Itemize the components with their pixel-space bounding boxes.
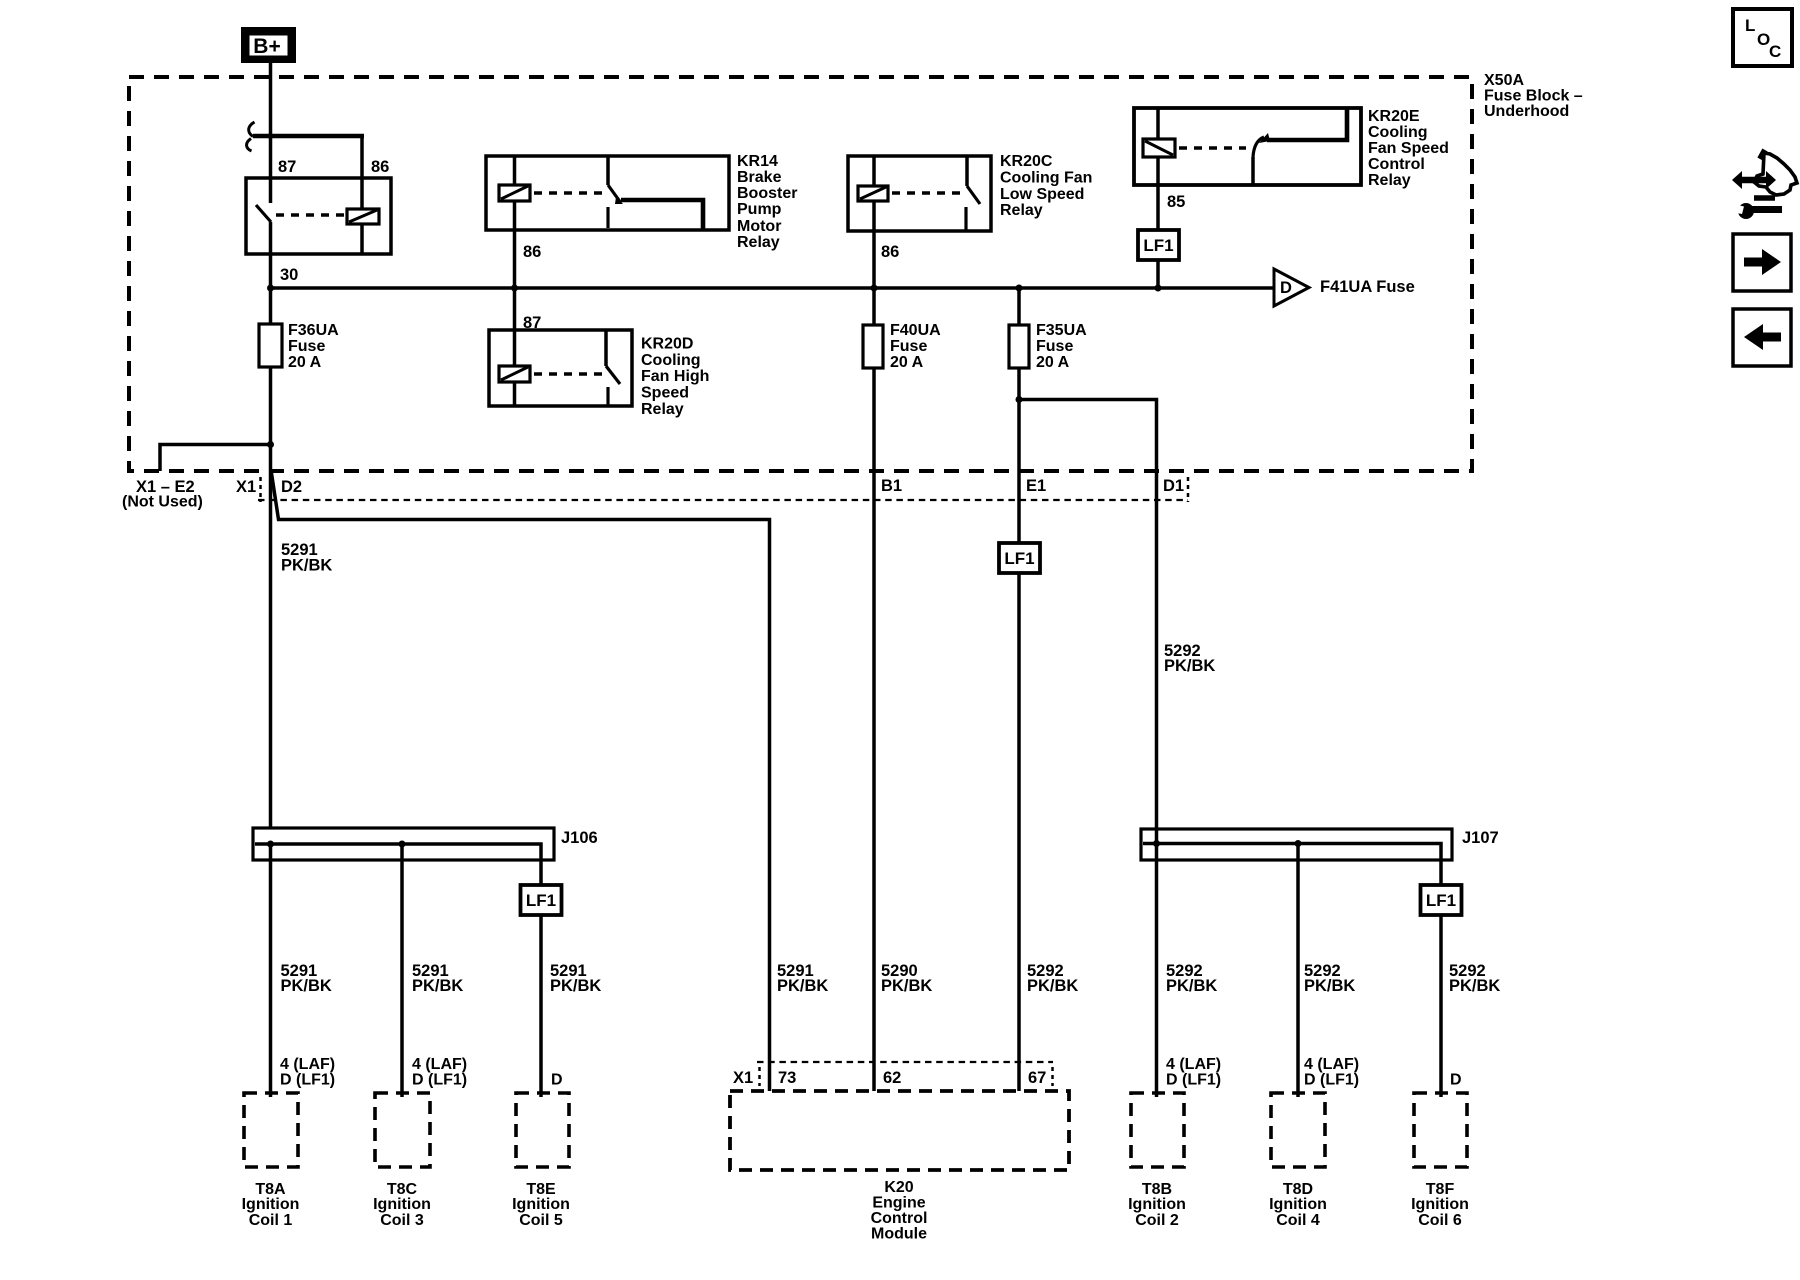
svg-text:62: 62 [883, 1069, 901, 1087]
svg-text:F35UA: F35UA [1036, 322, 1087, 339]
svg-text:20 A: 20 A [890, 354, 924, 371]
splice LF1 below J106 [521, 885, 562, 915]
svg-text:D2: D2 [281, 478, 302, 496]
svg-text:PK/BK: PK/BK [777, 977, 828, 995]
wire J106 to T8E via LF1 [539, 885, 543, 1097]
svg-text:73: 73 [778, 1069, 796, 1087]
svg-text:E1: E1 [1026, 477, 1046, 495]
hook symbol (clip) at splice [247, 122, 255, 151]
icon next-page arrow box [1733, 234, 1791, 291]
KR14 coil pin wire [513, 156, 517, 288]
KR20E curved blade [1253, 137, 1264, 157]
KR14 switch fixed pin [606, 156, 610, 185]
svg-text:J106: J106 [561, 829, 598, 847]
junction dot J106 b [399, 841, 406, 848]
svg-text:Control: Control [1368, 156, 1425, 173]
svg-text:B1: B1 [881, 477, 902, 495]
svg-text:LF1: LF1 [526, 891, 556, 910]
coil T8C dashed box [375, 1093, 430, 1167]
ECM connector row dotted line [757, 1061, 1053, 1063]
svg-text:KR20C: KR20C [1000, 153, 1053, 170]
fuse block X50A dashed border [129, 77, 1472, 471]
label KR20E Cooling Fan Speed Control Relay [1368, 108, 1449, 189]
svg-text:D: D [551, 1072, 563, 1089]
coil T8B dashed box [1131, 1093, 1184, 1167]
svg-text:Ignition: Ignition [512, 1196, 570, 1213]
svg-text:PK/BK: PK/BK [1164, 657, 1215, 675]
KR14 switch blade [608, 185, 621, 203]
svg-text:4 (LAF): 4 (LAF) [1304, 1056, 1359, 1073]
svg-text:Relay: Relay [737, 234, 780, 251]
coil T8F dashed box [1414, 1093, 1467, 1167]
relay KR20D box [489, 330, 632, 406]
wire D2 diagonal branch to ECM 73 [271, 470, 770, 1091]
coil T8D dashed box [1271, 1093, 1325, 1167]
wire 86 down into KR71 coil [360, 136, 364, 254]
label K20 Engine Control Module [871, 1179, 928, 1243]
svg-text:D (LF1): D (LF1) [412, 1072, 467, 1089]
connector separator right [1187, 477, 1190, 502]
svg-text:F40UA: F40UA [890, 322, 941, 339]
label 5292 PK/BK at D1 [1164, 642, 1215, 675]
svg-text:86: 86 [881, 243, 899, 261]
KR20C coil [858, 186, 888, 201]
svg-text:Relay: Relay [641, 401, 684, 418]
pin labels left coils [280, 1056, 563, 1089]
KR14 dashed actuator link [534, 191, 604, 195]
svg-text:D (LF1): D (LF1) [280, 1072, 335, 1089]
wire J107 to T8B [1155, 844, 1159, 1098]
KR20D switch lower pin [606, 387, 609, 406]
label F40UA Fuse 20A [890, 322, 941, 371]
pin labels X1 D2 B1 E1 D1 [236, 477, 1184, 496]
label X50A Fuse Block Underhood [1484, 72, 1583, 120]
label KR20C Cooling Fan Low Speed Relay [1000, 153, 1092, 219]
svg-text:F36UA: F36UA [288, 322, 339, 339]
svg-text:Low Speed: Low Speed [1000, 186, 1084, 203]
svg-text:Coil 3: Coil 3 [380, 1212, 424, 1229]
svg-text:Ignition: Ignition [1128, 1196, 1186, 1213]
svg-text:PK/BK: PK/BK [281, 977, 332, 995]
svg-text:Coil 2: Coil 2 [1135, 1212, 1179, 1229]
svg-text:D (LF1): D (LF1) [1166, 1072, 1221, 1089]
svg-text:K20: K20 [884, 1179, 913, 1196]
svg-text:PK/BK: PK/BK [1449, 977, 1500, 995]
junction dot J107 a [1153, 840, 1160, 847]
svg-text:4 (LAF): 4 (LAF) [1166, 1056, 1221, 1073]
svg-text:PK/BK: PK/BK [412, 977, 463, 995]
svg-text:Cooling Fan: Cooling Fan [1000, 170, 1092, 187]
svg-text:LF1: LF1 [1426, 891, 1456, 910]
KR20E coil [1143, 139, 1175, 157]
relay KR71 box [246, 178, 391, 254]
svg-text:(Not Used): (Not Used) [122, 494, 203, 511]
svg-text:Fuse: Fuse [288, 338, 325, 355]
svg-text:85: 85 [1167, 193, 1185, 211]
label KR14 Brake Booster Pump Motor Relay [737, 153, 797, 251]
svg-text:Module: Module [871, 1226, 927, 1243]
svg-text:PK/BK: PK/BK [881, 977, 932, 995]
KR20E dashed actuator link [1179, 146, 1246, 150]
svg-text:Control: Control [871, 1210, 928, 1227]
svg-text:Ignition: Ignition [1411, 1196, 1469, 1213]
svg-text:Speed: Speed [641, 385, 689, 402]
labels 5292 PK/BK column right [1166, 962, 1500, 995]
KR20C coil pin wire + B1 wire down to ECM 62 [872, 156, 876, 1091]
svg-text:86: 86 [371, 158, 389, 176]
svg-text:Coil 5: Coil 5 [519, 1212, 563, 1229]
junction dot LF1/bus [1155, 285, 1162, 292]
svg-text:86: 86 [523, 243, 541, 261]
fuse F40UA [863, 325, 883, 368]
label T8F Ignition Coil 6 [1411, 1181, 1469, 1229]
label F36UA Fuse 20A [288, 322, 339, 371]
wire 87 into switch [269, 136, 273, 203]
J107 bus bar [1143, 844, 1441, 886]
svg-text:Booster: Booster [737, 185, 797, 202]
svg-text:KR20D: KR20D [641, 336, 693, 353]
KR20C dashed actuator link [892, 191, 963, 195]
junction [268, 133, 274, 139]
label T8B Ignition Coil 2 [1128, 1181, 1186, 1229]
connector J107 box [1141, 829, 1452, 860]
wire J106 to T8A [269, 844, 273, 1097]
svg-text:PK/BK: PK/BK [1166, 977, 1217, 995]
svg-text:PK/BK: PK/BK [1027, 977, 1078, 995]
KR20D coil pin wire [513, 288, 517, 406]
svg-text:4 (LAF): 4 (LAF) [412, 1056, 467, 1073]
svg-text:B+: B+ [253, 35, 280, 58]
relay KR20E box [1134, 108, 1361, 185]
KR20D switch fixed pin [604, 330, 608, 366]
svg-text:Relay: Relay [1368, 172, 1411, 189]
ECM pin labels X1 73 62 67 [733, 1069, 1046, 1087]
label F35UA Fuse 20A [1036, 322, 1087, 371]
wire J107 to T8D [1296, 844, 1300, 1098]
svg-text:D (LF1): D (LF1) [1304, 1072, 1359, 1089]
KR14 output L wire [621, 200, 703, 230]
svg-text:30: 30 [280, 266, 298, 284]
KR14 coil [499, 185, 530, 201]
KR71 switch blade [256, 205, 271, 222]
KR20C switch blade [967, 186, 980, 204]
label T8D Ignition Coil 4 [1269, 1181, 1327, 1229]
svg-text:PK/BK: PK/BK [550, 977, 601, 995]
svg-text:Ignition: Ignition [242, 1196, 300, 1213]
svg-text:LF1: LF1 [1143, 236, 1173, 255]
KR20D coil [499, 366, 530, 382]
svg-text:Ignition: Ignition [1269, 1196, 1327, 1213]
junction dot F35UA/bus [1016, 285, 1023, 292]
svg-text:J107: J107 [1462, 829, 1499, 847]
KR20D dashed actuator link [534, 372, 602, 376]
label T8A Ignition Coil 1 [242, 1181, 300, 1229]
KR20E switch pivot pin [1251, 157, 1255, 185]
svg-text:Pump: Pump [737, 201, 782, 218]
splice LF1 below KR20E [1138, 230, 1179, 260]
svg-text:Fan Speed: Fan Speed [1368, 140, 1449, 157]
KR14 switch lower pin [606, 207, 609, 228]
svg-text:PK/BK: PK/BK [281, 557, 332, 575]
wire E1 branch down to ECM 67 [1017, 288, 1021, 1091]
wire J107 to T8F via LF1 [1439, 885, 1443, 1097]
svg-text:X1: X1 [236, 478, 256, 496]
junction dot 30/bus [267, 285, 274, 292]
svg-text:X1: X1 [733, 1069, 753, 1087]
label X1-E2 Not Used [122, 478, 203, 511]
fuse F36UA [259, 324, 282, 367]
svg-text:Fan High: Fan High [641, 368, 709, 385]
splice LF1 on E1 wire [999, 543, 1040, 573]
svg-text:PK/BK: PK/BK [1304, 977, 1355, 995]
ECM separator left [758, 1067, 761, 1086]
coil T8A dashed box [244, 1093, 298, 1167]
svg-text:D: D [1450, 1072, 1462, 1089]
KR20E blade arrowhead [1259, 133, 1270, 143]
wire J106 to T8C [400, 844, 404, 1097]
wire F36UA branch down (to J106) [269, 288, 273, 828]
icon prev-page arrow box [1733, 309, 1791, 366]
coil T8E dashed box [516, 1093, 569, 1167]
fuse F35UA [1009, 325, 1029, 368]
connector row dotted line [258, 499, 1188, 501]
connector separator left [259, 477, 262, 502]
label T8C Ignition Coil 3 [373, 1181, 431, 1229]
junction dot J107 b [1295, 840, 1302, 847]
label KR20D Cooling Fan High Speed Relay [641, 336, 709, 419]
wire X1-E2 stub (not used) [160, 445, 271, 472]
svg-text:KR20E: KR20E [1368, 108, 1420, 125]
F41UA fuse pointer triangle [1274, 269, 1309, 306]
svg-text:Engine: Engine [872, 1195, 925, 1212]
wire branch to D1 [1019, 400, 1157, 844]
wire B+ down to splice [269, 63, 273, 136]
svg-text:Fuse Block –: Fuse Block – [1484, 88, 1583, 105]
icon diagnostic pointer [1731, 150, 1797, 219]
svg-text:C: C [1769, 42, 1781, 61]
wire pin 30 down to bus [269, 222, 273, 288]
pin labels right coils [1166, 1056, 1462, 1089]
svg-text:Coil 6: Coil 6 [1418, 1212, 1462, 1229]
svg-text:LF1: LF1 [1004, 549, 1034, 568]
J106 bus bar [255, 844, 541, 885]
svg-text:Relay: Relay [1000, 202, 1043, 219]
svg-text:Underhood: Underhood [1484, 103, 1569, 120]
junction dot stub [267, 441, 274, 448]
svg-text:X50A: X50A [1484, 72, 1524, 89]
junction dot KR20C/bus [871, 285, 878, 292]
junction dot KR14/bus [511, 285, 518, 292]
KR20D switch blade [606, 366, 620, 384]
KR20E output L wire to top [1267, 108, 1347, 140]
labels 5291 5290 5292 PK/BK ECM wires [777, 962, 1078, 995]
svg-text:Coil 4: Coil 4 [1276, 1212, 1320, 1229]
KR20E coil pin wire down to bus [1156, 108, 1160, 288]
relay KR14 box [486, 156, 729, 230]
svg-text:4 (LAF): 4 (LAF) [280, 1056, 335, 1073]
KR20C switch fixed pin [965, 156, 969, 186]
KR71 coil [347, 209, 379, 224]
svg-text:Fuse: Fuse [1036, 338, 1073, 355]
node B+ battery feed [241, 27, 296, 63]
svg-text:L: L [1745, 16, 1755, 35]
junction dot E1/D1 branch [1016, 396, 1023, 403]
label 5291 PK/BK at D2 [281, 541, 332, 575]
svg-text:20 A: 20 A [1036, 354, 1070, 371]
svg-text:Brake: Brake [737, 169, 782, 186]
splice LF1 below J107 [1421, 885, 1462, 915]
svg-text:Motor: Motor [737, 218, 781, 235]
svg-text:F41UA Fuse: F41UA Fuse [1320, 278, 1415, 296]
junction dot J106 a [267, 841, 274, 848]
module K20 ECM dashed box [730, 1091, 1069, 1170]
wire splice horizontal to KR71 86 [253, 134, 364, 139]
label T8E Ignition Coil 5 [512, 1181, 570, 1229]
svg-text:Ignition: Ignition [373, 1196, 431, 1213]
bus wire from KR71 30 to F41UA [271, 286, 1274, 290]
svg-text:KR14: KR14 [737, 153, 778, 170]
svg-text:Fuse: Fuse [890, 338, 927, 355]
svg-text:D1: D1 [1163, 477, 1184, 495]
svg-text:Cooling: Cooling [641, 352, 701, 369]
svg-text:87: 87 [278, 158, 296, 176]
icon LOC box [1733, 9, 1792, 66]
ECM separator right [1051, 1067, 1054, 1086]
svg-text:Cooling: Cooling [1368, 124, 1428, 141]
KR71 dashed actuator link [276, 213, 347, 217]
labels 5291 PK/BK column left [281, 962, 602, 995]
KR20C switch lower pin [964, 207, 967, 231]
relay KR20C box [848, 156, 991, 231]
svg-text:20 A: 20 A [288, 354, 322, 371]
svg-text:D: D [1280, 279, 1292, 297]
svg-text:67: 67 [1028, 1069, 1046, 1087]
connector J106 box [253, 828, 554, 860]
svg-text:Coil 1: Coil 1 [249, 1212, 293, 1229]
KR14 blade arrow tip [615, 197, 623, 204]
